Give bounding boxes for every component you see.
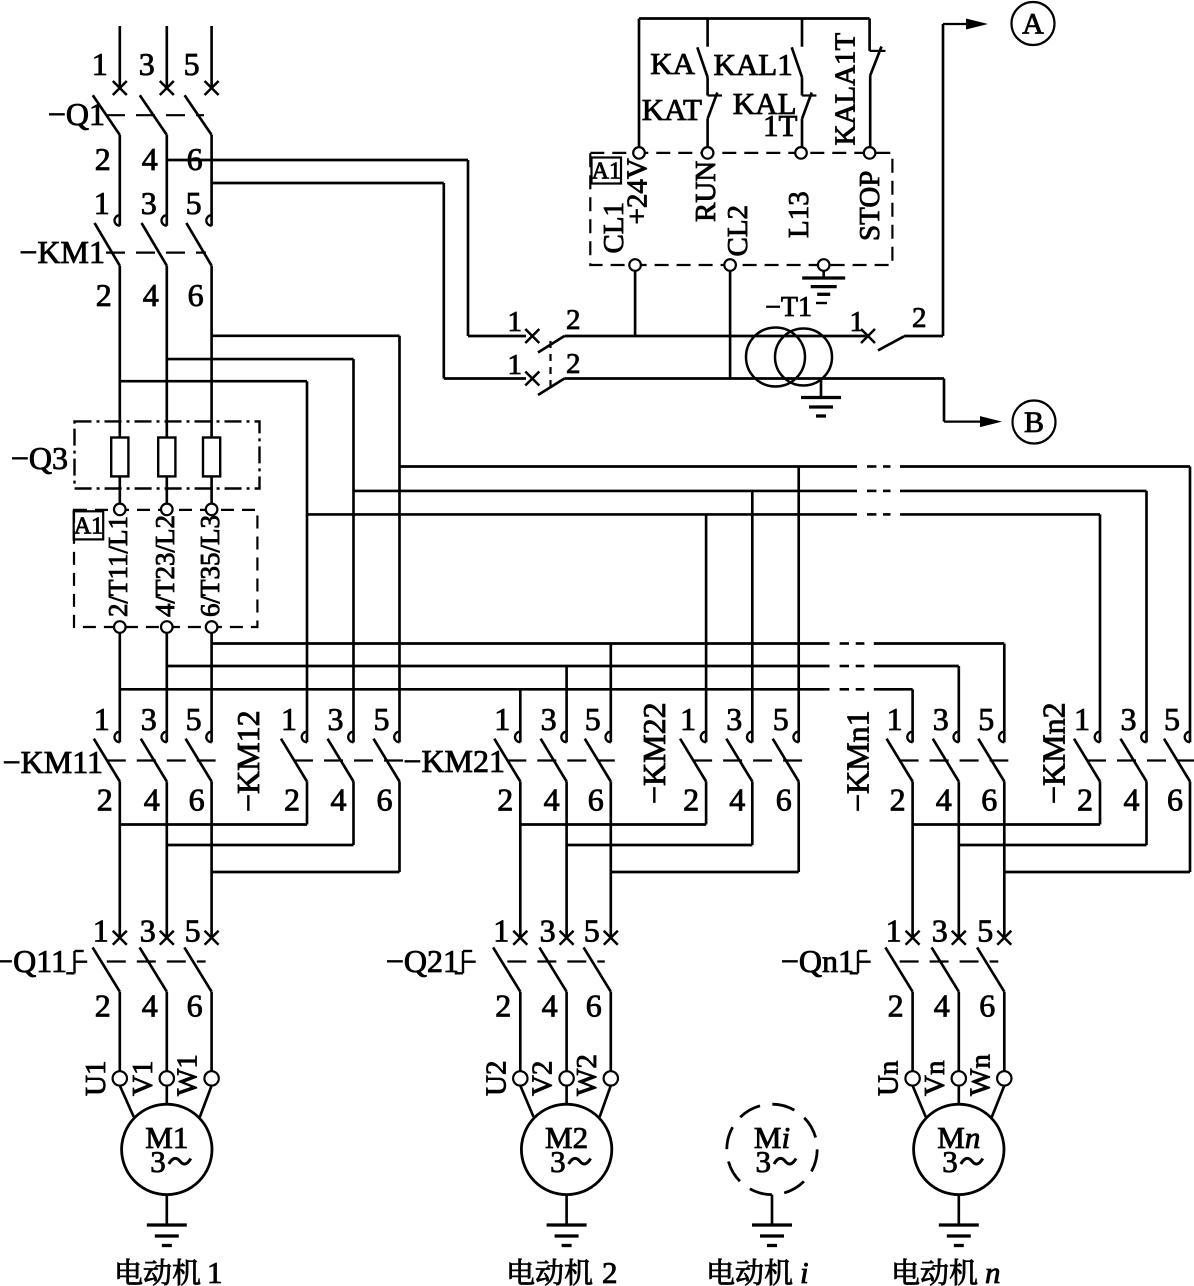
svg-text:2: 2	[566, 348, 581, 380]
svg-text:i: i	[800, 1255, 809, 1286]
svg-text:−KM21: −KM21	[403, 743, 505, 779]
svg-text:KA: KA	[650, 46, 695, 81]
svg-text:STOP: STOP	[854, 171, 886, 241]
svg-text:+24V: +24V	[622, 158, 654, 224]
svg-text:A1: A1	[74, 514, 103, 540]
svg-text:1: 1	[93, 913, 109, 949]
svg-text:3: 3	[932, 913, 948, 949]
svg-text:1: 1	[92, 46, 108, 82]
svg-text:3: 3	[933, 701, 949, 737]
svg-text:−Q21: −Q21	[386, 943, 459, 979]
svg-text:1: 1	[493, 913, 509, 949]
svg-text:4: 4	[143, 277, 159, 313]
svg-text:2: 2	[96, 277, 112, 313]
svg-text:1: 1	[94, 185, 110, 221]
svg-text:1: 1	[886, 913, 902, 949]
svg-text:5: 5	[374, 701, 390, 737]
svg-text:3: 3	[150, 1144, 166, 1179]
svg-text:1: 1	[494, 701, 510, 737]
svg-text:KALA1T: KALA1T	[830, 32, 862, 145]
svg-text:−Q11: −Q11	[0, 943, 67, 979]
svg-text:5: 5	[186, 185, 202, 221]
svg-text:B: B	[1024, 406, 1044, 439]
svg-text:3: 3	[141, 701, 157, 737]
svg-text:4: 4	[729, 782, 745, 818]
svg-text:4: 4	[544, 782, 560, 818]
svg-text:−Q3: −Q3	[11, 440, 68, 476]
svg-text:V1: V1	[127, 1061, 159, 1096]
svg-text:KAL1: KAL1	[714, 47, 793, 82]
svg-text:U1: U1	[80, 1061, 112, 1096]
svg-text:−KMn1: −KMn1	[840, 710, 876, 812]
svg-text:6: 6	[188, 277, 204, 313]
svg-text:2: 2	[495, 988, 511, 1024]
svg-text:3: 3	[328, 701, 344, 737]
svg-text:4/T23/L2: 4/T23/L2	[150, 515, 180, 617]
svg-text:3: 3	[550, 1144, 566, 1179]
svg-text:4: 4	[934, 988, 950, 1024]
svg-text:3: 3	[1121, 701, 1137, 737]
svg-text:2: 2	[566, 304, 581, 336]
svg-text:W2: W2	[571, 1054, 603, 1096]
svg-text:−KM1: −KM1	[19, 234, 105, 270]
svg-text:Vn: Vn	[919, 1060, 951, 1096]
svg-text:A1: A1	[592, 159, 621, 185]
svg-text:−Q1: −Q1	[48, 96, 105, 132]
svg-text:−KMn2: −KMn2	[1036, 702, 1072, 804]
svg-text:3: 3	[540, 913, 556, 949]
svg-text:Wn: Wn	[964, 1054, 996, 1096]
svg-text:2: 2	[890, 782, 906, 818]
svg-text:1: 1	[887, 701, 903, 737]
svg-text:6: 6	[189, 782, 205, 818]
svg-text:CL2: CL2	[722, 205, 754, 257]
svg-text:5: 5	[978, 701, 994, 737]
svg-text:−KM22: −KM22	[636, 702, 672, 804]
svg-text:−KM12: −KM12	[230, 710, 266, 812]
svg-text:6: 6	[586, 988, 602, 1024]
svg-text:U2: U2	[480, 1061, 512, 1096]
svg-text:2: 2	[95, 141, 111, 177]
svg-text:3: 3	[141, 185, 157, 221]
svg-text:2/T11/L1: 2/T11/L1	[103, 516, 133, 617]
svg-text:6: 6	[588, 782, 604, 818]
svg-text:n: n	[985, 1255, 1001, 1286]
svg-text:4: 4	[142, 141, 158, 177]
svg-text:2: 2	[683, 782, 699, 818]
svg-text:A: A	[1022, 8, 1044, 41]
svg-text:W1: W1	[172, 1054, 204, 1096]
svg-text:5: 5	[977, 913, 993, 949]
svg-text:RUN: RUN	[690, 161, 722, 222]
svg-text:L13: L13	[783, 191, 815, 238]
svg-text:4: 4	[331, 782, 347, 818]
svg-text:3: 3	[541, 701, 557, 737]
svg-text:2: 2	[912, 302, 927, 334]
svg-text:5: 5	[186, 701, 202, 737]
svg-text:4: 4	[144, 782, 160, 818]
svg-text:6: 6	[377, 782, 393, 818]
svg-text:Un: Un	[873, 1060, 905, 1096]
svg-text:2: 2	[888, 988, 904, 1024]
svg-text:3: 3	[139, 46, 155, 82]
svg-text:6: 6	[776, 782, 792, 818]
svg-text:−KM11: −KM11	[3, 744, 103, 780]
svg-text:1: 1	[508, 306, 523, 338]
svg-text:5: 5	[773, 701, 789, 737]
svg-text:1: 1	[94, 701, 110, 737]
svg-text:2: 2	[284, 782, 300, 818]
svg-text:4: 4	[936, 782, 952, 818]
svg-text:V2: V2	[527, 1061, 559, 1096]
svg-text:1: 1	[850, 306, 865, 338]
svg-text:1: 1	[1074, 701, 1090, 737]
svg-text:6/T35/L3: 6/T35/L3	[195, 515, 225, 617]
svg-text:2: 2	[1077, 782, 1093, 818]
svg-text:3: 3	[726, 701, 742, 737]
svg-text:2: 2	[95, 988, 111, 1024]
svg-text:5: 5	[1164, 701, 1180, 737]
svg-text:6: 6	[979, 988, 995, 1024]
svg-text:6: 6	[1167, 782, 1183, 818]
svg-text:5: 5	[585, 701, 601, 737]
svg-text:2: 2	[497, 782, 513, 818]
svg-text:1: 1	[281, 701, 297, 737]
svg-text:4: 4	[142, 988, 158, 1024]
svg-text:2: 2	[97, 782, 113, 818]
svg-text:−T1: −T1	[765, 292, 812, 323]
svg-text:2: 2	[602, 1255, 618, 1286]
svg-text:5: 5	[185, 913, 201, 949]
svg-text:1: 1	[680, 701, 696, 737]
svg-text:1: 1	[508, 349, 523, 381]
svg-text:3: 3	[942, 1144, 958, 1179]
svg-text:3: 3	[140, 913, 156, 949]
svg-text:4: 4	[1124, 782, 1140, 818]
svg-text:6: 6	[187, 988, 203, 1024]
svg-text:−Qn1: −Qn1	[781, 943, 854, 979]
svg-text:6: 6	[981, 782, 997, 818]
svg-text:KAT: KAT	[642, 92, 702, 127]
svg-text:3: 3	[756, 1144, 772, 1179]
svg-text:5: 5	[184, 46, 200, 82]
svg-text:5: 5	[584, 913, 600, 949]
svg-text:4: 4	[542, 988, 558, 1024]
svg-text:1T: 1T	[763, 108, 798, 143]
svg-text:1: 1	[207, 1255, 223, 1286]
